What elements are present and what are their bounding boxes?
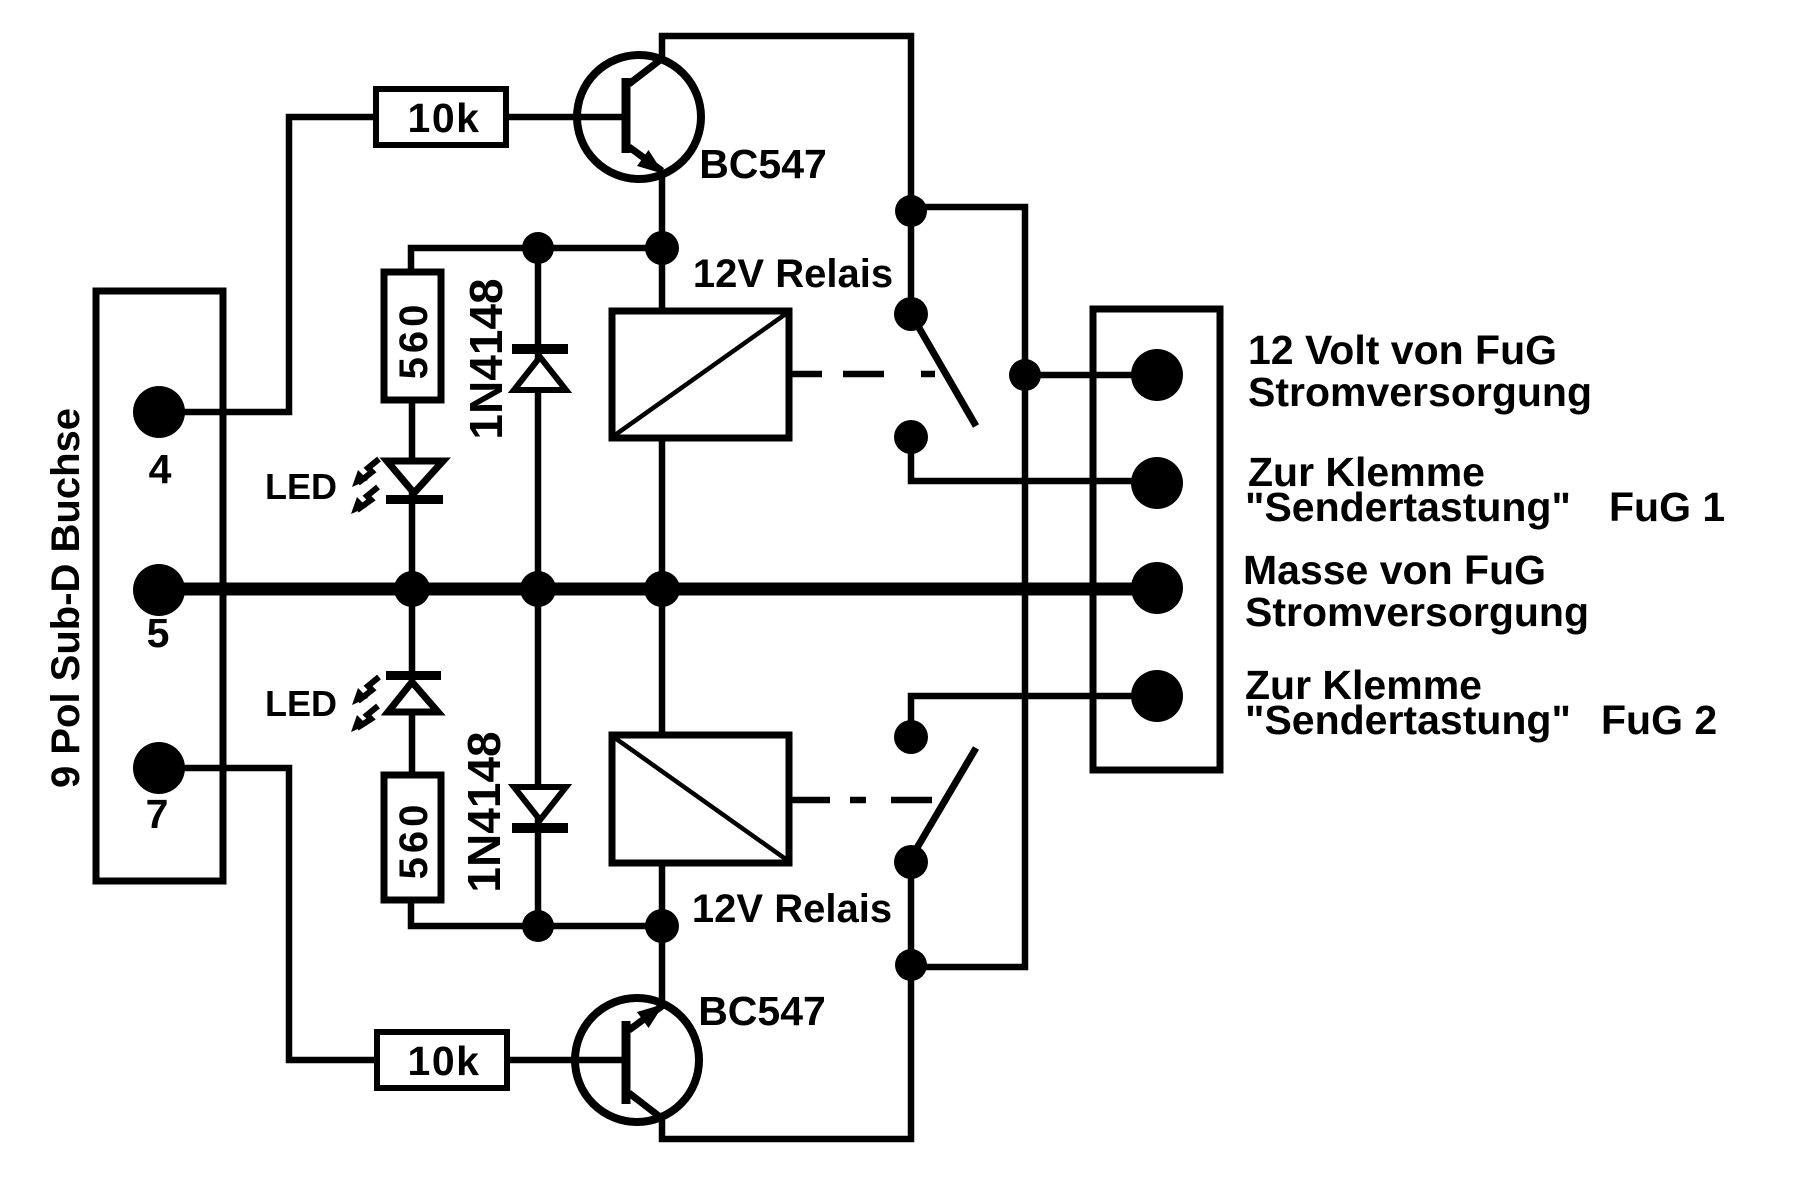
switch S1 arm xyxy=(911,314,976,426)
diode D4 1N4148 xyxy=(512,787,568,833)
svg-text:10k: 10k xyxy=(408,1038,481,1084)
relay K1 coil xyxy=(612,311,789,438)
wire pin4 to R1 xyxy=(159,117,376,412)
wire R3 to Q2 base xyxy=(507,1057,626,1064)
svg-text:1N4148: 1N4148 xyxy=(458,731,510,892)
wire Q2 emitter to bottom rail xyxy=(662,862,911,1139)
svg-text:FuG 1: FuG 1 xyxy=(1609,484,1725,530)
terminal 1 pad xyxy=(1131,349,1183,401)
node B junction xyxy=(645,909,679,943)
svg-text:"Sendertastung": "Sendertastung" xyxy=(1245,697,1571,743)
wire diode D4 branch xyxy=(535,594,542,926)
dashed actuation link K1 xyxy=(790,371,935,378)
LED D1 emission arrows xyxy=(357,459,379,510)
junction relay branch on masse xyxy=(644,571,680,607)
junction node top rail xyxy=(895,195,927,227)
svg-text:Masse von FuG: Masse von FuG xyxy=(1243,547,1546,593)
junction bottom right rail xyxy=(895,949,927,981)
LED D3 xyxy=(386,671,441,712)
wire S2 upper contact to terminal 4 xyxy=(911,696,1157,737)
LED D1 xyxy=(386,461,443,504)
junction diode branch on masse xyxy=(520,571,556,607)
switch S1 NO contact xyxy=(894,420,928,454)
pin 7 pad xyxy=(133,742,185,794)
transistor Q2 BC547 xyxy=(575,998,699,1122)
terminal 4 pad xyxy=(1131,670,1183,722)
wire relay K2 to node B xyxy=(659,863,666,926)
svg-text:FuG 2: FuG 2 xyxy=(1601,697,1717,743)
switch S2 arm xyxy=(911,748,976,858)
LED D3 emission arrows xyxy=(357,677,379,728)
svg-text:Stromversorgung: Stromversorgung xyxy=(1248,369,1592,415)
svg-text:5: 5 xyxy=(147,610,170,656)
connector J1 9-pol Sub-D Buchse xyxy=(96,291,223,881)
wire diode D2 branch xyxy=(535,248,542,588)
wire node A rail xyxy=(411,248,662,272)
wire LED D1 branch xyxy=(409,400,416,588)
wire Q1 collector top rail xyxy=(662,36,911,211)
wire R1 to Q1 base xyxy=(506,114,626,121)
wire pin7 to R3 xyxy=(159,768,377,1060)
node A junction xyxy=(645,231,679,265)
dashed actuation link K2 xyxy=(790,797,932,804)
switch S2 lower contact xyxy=(894,845,928,879)
svg-text:560: 560 xyxy=(392,801,436,880)
resistor R4 560 xyxy=(384,775,441,900)
junction diode top xyxy=(522,232,554,264)
svg-text:12V Relais: 12V Relais xyxy=(692,887,892,931)
wire top node to right rail xyxy=(911,207,1025,967)
connector J2 right terminal block xyxy=(1093,309,1220,770)
wire right rail to terminal 1 xyxy=(1025,372,1157,379)
svg-text:1N4148: 1N4148 xyxy=(460,278,512,439)
svg-text:10k: 10k xyxy=(408,95,481,141)
diode D2 1N4148 xyxy=(512,344,568,390)
svg-text:4: 4 xyxy=(149,446,172,492)
wire top node to switch S1 xyxy=(908,211,915,314)
wire relay K1 to ground rail xyxy=(659,438,666,588)
resistor R3 10k xyxy=(377,1032,507,1088)
wire Q1 emitter to node A xyxy=(659,170,666,252)
resistor R1 10k xyxy=(376,89,506,145)
pin 5 pad xyxy=(133,564,185,616)
svg-text:LED: LED xyxy=(265,683,337,724)
wire LED D3 branch xyxy=(409,594,416,775)
switch S1 common contact xyxy=(894,297,928,331)
svg-text:BC547: BC547 xyxy=(698,988,826,1034)
junction diode bottom node B xyxy=(522,910,554,942)
wire Q2 collector to node B xyxy=(659,926,666,1008)
svg-text:"Sendertastung": "Sendertastung" xyxy=(1245,484,1571,530)
wire node A to relay K1 xyxy=(659,248,666,311)
svg-text:7: 7 xyxy=(146,791,169,837)
wire node B rail xyxy=(411,900,662,926)
svg-text:Stromversorgung: Stromversorgung xyxy=(1245,589,1589,635)
transistor Q1 BC547 xyxy=(577,55,701,179)
svg-text:12 Volt von FuG: 12 Volt von FuG xyxy=(1248,327,1557,373)
svg-text:LED: LED xyxy=(265,466,337,507)
junction LED branch on masse xyxy=(394,571,430,607)
terminal 3 pad xyxy=(1131,562,1183,614)
relay K2 coil xyxy=(612,735,789,863)
switch S2 upper contact xyxy=(894,720,928,754)
terminal 2 pad xyxy=(1131,457,1183,509)
svg-text:9 Pol Sub-D Buchse: 9 Pol Sub-D Buchse xyxy=(44,408,88,788)
svg-text:560: 560 xyxy=(392,301,436,380)
svg-text:12V Relais: 12V Relais xyxy=(693,252,893,296)
svg-text:BC547: BC547 xyxy=(699,141,827,187)
wire S1 NO contact to terminal 2 xyxy=(911,437,1157,481)
junction right rail to terminal1 xyxy=(1009,359,1041,391)
pin 4 pad xyxy=(133,386,185,438)
resistor R2 560 xyxy=(384,272,441,400)
ground rail Masse xyxy=(159,583,1157,596)
wire ground rail to relay K2 xyxy=(659,594,666,735)
